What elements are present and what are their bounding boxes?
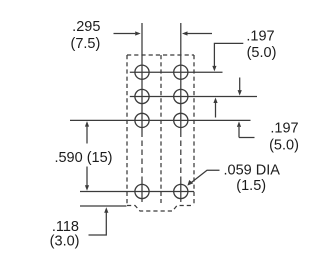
svg-text:(5.0): (5.0): [247, 45, 277, 61]
svg-text:.197: .197: [270, 121, 298, 137]
svg-text:(5.0): (5.0): [269, 137, 299, 153]
svg-text:(1.5): (1.5): [236, 178, 266, 194]
svg-text:.059 DIA: .059 DIA: [223, 163, 280, 179]
svg-text:(3.0): (3.0): [50, 234, 80, 250]
svg-text:.590 (15): .590 (15): [54, 150, 112, 166]
svg-text:.197: .197: [246, 29, 274, 45]
svg-text:.295: .295: [72, 19, 100, 35]
svg-text:(7.5): (7.5): [70, 36, 100, 52]
